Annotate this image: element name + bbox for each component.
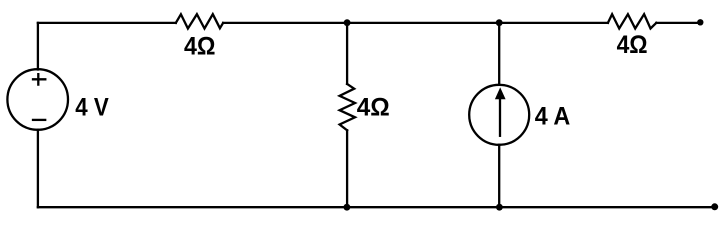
- terminal dot bottom right: [711, 203, 718, 210]
- wire current source vertical upper: [498, 23, 500, 85]
- current source arrowhead: [495, 87, 506, 99]
- wire top middle segment: [223, 22, 608, 24]
- wire middle vertical upper: [346, 23, 348, 84]
- wire top right segment: [656, 22, 699, 24]
- voltage source plus sign: [33, 74, 45, 85]
- junction dot top middle node: [344, 19, 351, 26]
- junction dot bottom middle node: [344, 204, 351, 211]
- terminal dot top right: [697, 19, 703, 25]
- svg-text:4Ω: 4Ω: [184, 32, 216, 60]
- svg-text:4 A: 4 A: [535, 102, 571, 130]
- junction dot bottom current source node: [496, 204, 503, 211]
- wire left vertical upper: [37, 23, 39, 70]
- wire bottom: [38, 206, 715, 208]
- voltage source minus sign: [33, 119, 45, 121]
- resistor R1 zigzag (top left): [176, 14, 223, 28]
- svg-text:4Ω: 4Ω: [617, 31, 648, 59]
- wire top left segment: [38, 22, 176, 24]
- svg-text:4Ω: 4Ω: [357, 93, 390, 121]
- resistor R2 zigzag (middle vertical): [340, 84, 355, 130]
- wire left vertical lower: [37, 130, 39, 207]
- wire current source vertical lower: [498, 145, 500, 207]
- voltage source V1 circle: [7, 69, 68, 130]
- current source I1 circle: [469, 85, 529, 145]
- current source arrow shaft: [499, 98, 501, 136]
- wire middle vertical lower: [346, 130, 348, 207]
- svg-text:4 V: 4 V: [75, 93, 109, 121]
- junction dot top current source node: [496, 19, 503, 26]
- resistor R3 zigzag (top right): [608, 14, 656, 28]
